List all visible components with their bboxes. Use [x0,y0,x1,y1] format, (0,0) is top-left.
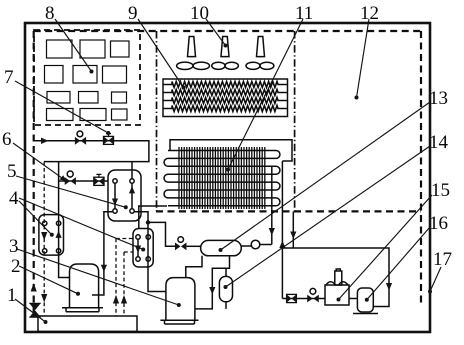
HX5 ports and internals [112,162,135,214]
pump 15 [325,269,349,305]
svg-text:16: 16 [429,213,448,234]
HX5 suction outlet to compressor 2 line [92,212,113,295]
heat exchanger 4a body [39,215,64,256]
heater coil row3 [163,98,288,104]
junction node [146,220,150,224]
water tank 1 [38,316,137,332]
chamber dashed floor [156,210,421,212]
solenoid valve V4 [94,174,104,185]
chamber dashed enclosure left wall / duct A [33,31,35,316]
heat exchanger 4b body [133,229,153,268]
fan 10b [212,37,239,70]
svg-text:14: 14 [429,132,449,153]
svg-text:3: 3 [9,236,19,257]
leader 4 to HX4b [19,198,145,252]
svg-text:2: 2 [11,256,21,277]
label 6 [2,129,12,150]
label 13 [429,88,448,109]
partition wall left (dash-dot) [156,31,158,211]
leader 2 [19,266,80,296]
leader 6 [13,143,67,181]
svg-text:5: 5 [7,161,17,182]
leader 9 [138,19,186,90]
heater coil row2 [163,90,288,96]
receiver outlet right with sight glass [241,240,271,249]
cabinet module row1 [47,40,130,58]
svg-text:1: 1 [7,285,17,306]
svg-text:4: 4 [9,188,19,209]
expansion valve [175,237,187,251]
svg-text:7: 7 [4,67,14,88]
leader 15 [337,195,433,302]
leader 3 [17,249,181,307]
pipe: top liquid line with valves [34,141,149,162]
leader 7 [15,81,110,135]
svg-text:12: 12 [360,3,379,24]
outer frame [25,23,430,332]
compressor 3 discharge pipe [186,256,202,278]
label 12 [360,3,379,24]
chamber dashed enclosure right wall [420,31,422,305]
chamber dashed enclosure top [34,30,421,32]
receiver 13 [201,240,242,255]
pump suction line with valves [282,298,325,300]
svg-text:9: 9 [128,3,138,24]
partition wall right (dash-dot) [294,31,296,211]
expansion tank 16 [353,288,378,314]
fan 10c [246,37,274,70]
evaporator coil 11 fins [179,147,265,209]
label 15 [431,180,450,201]
leader 5 [16,176,128,209]
svg-text:15: 15 [431,180,450,201]
label 16 [429,213,448,234]
arrow down right side of pump circuit [386,283,392,291]
valve V1 (globe) on top line [75,131,86,145]
leader 11 [226,19,303,172]
svg-text:17: 17 [433,249,452,270]
pump to tank16 pipe [349,298,357,300]
solenoid valve 7 (V2) on top line [104,134,114,145]
air ducts C and D dashed [113,239,133,317]
liquid line from junction to expansion valve [148,222,175,246]
leader 4 to HX4a [19,201,54,237]
leader 13 [219,102,431,252]
label 1 [7,285,17,306]
flow arrow down on suction [101,265,107,272]
receiver to filter drier line [195,256,230,309]
air duct B dashed with dampers [41,162,47,316]
leader 12 [355,19,370,100]
heat exchanger 5 body [108,170,141,221]
water pipe M up to chamber [279,161,285,299]
filter drier 14 [219,268,232,309]
evaporator coil 11 serpentine [164,151,280,206]
leader 14 [224,146,431,289]
svg-text:10: 10 [190,3,209,24]
condensate pipe L from evaporator [269,167,275,245]
HX4b ports and internals [135,235,151,261]
valve V3 (globe) [65,171,76,185]
damper valve on duct A [29,303,40,317]
label 8 [45,3,55,24]
label 11 [295,3,313,24]
label 5 [7,161,17,182]
svg-text:6: 6 [2,129,12,150]
leader 8 [55,19,94,74]
heater coil row1 [163,82,288,88]
cabinet module row4 [47,109,128,121]
svg-text:13: 13 [429,88,448,109]
pipe expansion valve to receiver [187,245,201,247]
pipe: drop from liquid line to valve row and HX4a [59,162,70,278]
air flow arrow up on duct A [31,283,37,292]
label 17 [433,249,452,270]
cabinet module row2 [45,66,127,84]
valve row pipe [59,180,108,182]
label 4 [9,188,19,209]
leader 10 [206,19,228,48]
label 10 [190,3,209,24]
compressor 3 (right unit) [160,278,198,324]
label 7 [4,67,14,88]
pump circuit frame [282,248,389,307]
HX4a ports and internals [43,221,62,253]
heater coil row4 [163,106,288,112]
svg-text:8: 8 [45,3,55,24]
compressor 2 (left unit) [62,264,103,312]
svg-text:11: 11 [295,3,313,24]
globe valve VB [307,288,319,302]
HX5 right outlet with junction [134,212,166,292]
water return pipe R [290,211,296,248]
leader 17 [428,267,441,294]
electric heater 9 box [163,79,288,117]
label 3 [9,236,19,257]
flow arrow right on top line [41,138,49,144]
label 2 [11,256,21,277]
fan 10a [177,37,210,70]
label 14 [429,132,449,153]
label 9 [128,3,138,24]
solenoid valve VA [287,294,297,302]
leader 16 [365,227,430,302]
evaporator top supply pipe [170,140,292,161]
evaporator bottom-left outlet to HX4b [139,206,167,229]
flow arrow down on drier line [209,287,215,295]
cabinet module row3 [47,92,127,104]
control cabinet 8 dashed box [34,30,140,125]
leader 1 [15,299,48,324]
